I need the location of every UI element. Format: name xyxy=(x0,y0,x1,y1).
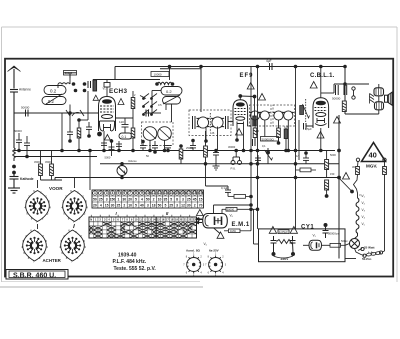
wire CY1 in/out xyxy=(303,244,330,246)
capacitor 4uF on bus xyxy=(266,59,272,70)
grid bias bus y150 xyxy=(14,150,108,152)
svg-text:25: 25 xyxy=(99,197,103,201)
junction dots EF9 top xyxy=(253,95,257,99)
wire screen feed verticals xyxy=(251,67,258,151)
svg-text:8: 8 xyxy=(176,197,178,201)
svg-text:VOOR: VOOR xyxy=(49,186,63,191)
junction dot left mid2 xyxy=(68,139,72,143)
svg-text:3: 3 xyxy=(182,197,184,201)
wire antenna down to kathode xyxy=(13,113,15,148)
resistor EM1 bottom boxed 1M xyxy=(224,229,251,233)
svg-text:35: 35 xyxy=(164,197,168,201)
wire switch stems xyxy=(38,178,75,230)
svg-text:2: 2 xyxy=(194,203,196,207)
junction dots detector row xyxy=(249,149,253,153)
svg-text:15: 15 xyxy=(175,191,179,195)
wire plug cluster xyxy=(355,249,365,256)
junction dot m1 xyxy=(131,149,135,153)
junction dots x251 xyxy=(249,162,253,166)
svg-text:10: 10 xyxy=(158,197,162,201)
variable capacitor osc left xyxy=(143,127,157,141)
chain links plug xyxy=(366,251,381,256)
junction dot m2 xyxy=(141,140,145,144)
svg-text:4500: 4500 xyxy=(45,160,51,164)
svg-text:V₁: V₁ xyxy=(362,194,365,198)
capacitor to ground xyxy=(10,174,19,188)
junction dot pu xyxy=(214,149,218,153)
wire mid rails right xyxy=(296,67,300,161)
grid cap wire ECH3 xyxy=(104,80,110,97)
svg-text:150: 150 xyxy=(330,172,335,176)
svg-text:1: 1 xyxy=(117,197,119,201)
svg-text:0.1: 0.1 xyxy=(122,135,127,139)
junction dot CY1 top xyxy=(324,223,328,227)
capacitor output 2 xyxy=(344,85,347,95)
triangle right of EF9 xyxy=(259,94,266,101)
coil hf choke xyxy=(157,82,172,84)
output transformer upper winding xyxy=(374,88,384,96)
wire psu arc xyxy=(274,256,294,258)
wire af coupling xyxy=(206,186,229,190)
coil small upper left xyxy=(58,78,70,88)
svg-text:0.2: 0.2 xyxy=(166,89,172,94)
power supply enclosure box xyxy=(259,229,346,262)
junction dot m5 xyxy=(179,144,183,148)
svg-text:4: 4 xyxy=(112,191,114,195)
svg-text:ACHTER: ACHTER xyxy=(43,258,62,263)
triangle below EM1 xyxy=(217,232,224,238)
wire avc to table xyxy=(89,151,91,191)
resistor tone vertical xyxy=(342,101,346,112)
junction dots varcap xyxy=(148,149,152,153)
capacitor cluster mid 6 xyxy=(190,140,196,151)
wire vertical x201 to IFT1 xyxy=(200,67,202,113)
svg-text:5000: 5000 xyxy=(105,156,111,160)
svg-text:3: 3 xyxy=(106,191,108,195)
capacitor cluster mid 4 xyxy=(140,141,146,151)
capacitor pair input xyxy=(88,81,94,88)
svg-text:5: 5 xyxy=(135,197,137,201)
triangle EM1 topleft xyxy=(196,210,203,216)
oscillator coil upper xyxy=(161,87,182,96)
terminal circle b xyxy=(363,254,366,257)
svg-text:0.5: 0.5 xyxy=(158,103,162,107)
socket diagram right xyxy=(208,256,222,274)
triangle 40 MGV xyxy=(362,143,386,162)
svg-text:1MΩ: 1MΩ xyxy=(230,229,236,233)
svg-text:Aansl. 8Ω: Aansl. 8Ω xyxy=(186,249,201,253)
svg-text:4500: 4500 xyxy=(34,160,40,164)
arrows into EM1 xyxy=(196,218,202,225)
detector small parts cluster xyxy=(255,155,261,164)
svg-text:30000cm: 30000cm xyxy=(328,232,340,236)
lamp chain right terminal xyxy=(383,158,386,161)
svg-text:50-Per.: 50-Per. xyxy=(362,257,372,261)
junction dots input filter xyxy=(72,82,76,86)
IFT1 core dashed xyxy=(209,113,211,132)
svg-text:11: 11 xyxy=(152,191,156,195)
junction dot CBL1 lead xyxy=(319,149,323,153)
potentiometer det xyxy=(265,148,273,164)
resistor chain left xyxy=(354,167,360,199)
capacitor pu xyxy=(213,151,219,161)
svg-text:20: 20 xyxy=(93,203,97,207)
svg-text:500000Ω: 500000Ω xyxy=(262,137,275,141)
IFT1 primary trim capacitor xyxy=(193,116,196,129)
band switch contact dots xyxy=(142,97,153,116)
capacitor det left xyxy=(253,139,256,146)
wire chain tap xyxy=(339,178,352,192)
mains switch circle xyxy=(350,236,360,249)
comb decoupling cluster 3 xyxy=(116,141,122,151)
svg-text:18: 18 xyxy=(193,191,197,195)
wire EM1 bottom xyxy=(214,228,221,234)
wire CBL1 grid top xyxy=(320,67,322,94)
svg-text:30: 30 xyxy=(111,203,115,207)
svg-text:25: 25 xyxy=(187,197,191,201)
resistor right rail 2 xyxy=(325,180,329,196)
resistor psu boxed xyxy=(278,230,289,234)
svg-text:10000: 10000 xyxy=(154,72,162,76)
svg-text:30: 30 xyxy=(187,203,191,207)
svg-text:4: 4 xyxy=(100,203,102,207)
wire x257 vertical lower xyxy=(257,105,259,229)
tube EM1 magic eye xyxy=(203,214,228,228)
wire EF9 cathode leads xyxy=(237,126,244,151)
svg-text:30: 30 xyxy=(122,197,126,201)
svg-text:Antenne: Antenne xyxy=(19,88,31,92)
svg-text:9: 9 xyxy=(141,191,143,195)
svg-text:3: 3 xyxy=(176,203,178,207)
svg-text:1ℎ: 1ℎ xyxy=(296,154,299,158)
resistor IFT2 lead vertical xyxy=(253,128,257,139)
capacitor psu 2 xyxy=(290,236,296,253)
padder trimmer below osc box xyxy=(152,141,158,152)
resistor R osc grid vertical xyxy=(131,91,135,115)
output transformer lower winding xyxy=(375,102,384,110)
triangle psu 2 xyxy=(290,227,297,234)
svg-text:3: 3 xyxy=(106,197,108,201)
svg-text:25: 25 xyxy=(117,203,121,207)
junction dots IFT2 leads xyxy=(287,149,291,153)
junction dot left low2 xyxy=(25,155,29,159)
band switch contact row 1 xyxy=(140,94,157,115)
coil choke left xyxy=(13,148,16,161)
capacitor CY1 xyxy=(323,227,329,238)
schematic frame xyxy=(5,59,393,277)
wire x295 vertical lower xyxy=(295,151,297,229)
svg-text:2: 2 xyxy=(153,197,155,201)
wire varcap leads to bus xyxy=(150,105,172,151)
wire CBL1 plate to transformer xyxy=(321,84,369,93)
junction dot c1 xyxy=(102,149,106,153)
svg-text:300: 300 xyxy=(247,124,252,128)
svg-text:4µF: 4µF xyxy=(266,59,272,63)
ground symbol pu xyxy=(213,160,220,170)
svg-text:500Ω: 500Ω xyxy=(341,239,347,243)
svg-text:0,1µF: 0,1µF xyxy=(221,186,228,190)
capacitor 4500 pair xyxy=(86,122,92,136)
svg-text:20: 20 xyxy=(128,197,132,201)
IFT2a coil 1 xyxy=(249,111,260,120)
wire antenna tap right xyxy=(14,112,62,114)
resistor volume vertical xyxy=(204,131,208,186)
rotary switch S3 achter-left xyxy=(21,229,48,264)
tiny value labels sprinkle xyxy=(34,93,362,243)
pickup terminal circles xyxy=(231,151,242,165)
lamp chain left wire xyxy=(357,162,360,167)
junction dot m3 xyxy=(153,150,157,154)
junction dot m4 xyxy=(166,149,170,153)
svg-text:Kathode: Kathode xyxy=(20,177,34,181)
svg-text:45: 45 xyxy=(193,197,197,201)
resistor 30000 boxed label xyxy=(64,71,77,76)
capacitor AF xyxy=(304,123,314,130)
oscillator tuning dashed box xyxy=(142,122,174,146)
ballast coil loops xyxy=(356,198,359,236)
IFT1 secondary coil xyxy=(211,117,224,128)
svg-text:14: 14 xyxy=(169,191,173,195)
svg-text:12: 12 xyxy=(158,191,162,195)
junction dot c3 xyxy=(117,149,121,153)
input bandfilter coil 0.2 upper xyxy=(44,86,66,95)
switch contact marks on grid line xyxy=(66,110,84,116)
tube EF9 xyxy=(233,100,248,126)
junction dot psu 1 xyxy=(272,252,276,256)
junction dots left mid3 xyxy=(77,118,81,122)
svg-text:50000: 50000 xyxy=(14,129,22,133)
junction dots x295 xyxy=(294,162,298,166)
resistor vertical 2 xyxy=(50,151,54,181)
triangle chain xyxy=(343,173,350,180)
resistor af boxed xyxy=(228,195,251,199)
lamp chain left terminal xyxy=(356,158,359,161)
junction dots left mid xyxy=(60,149,64,153)
resistor 4500 vertical xyxy=(39,151,43,181)
capacitor psu 1 xyxy=(271,236,277,253)
triangle below EF9 label xyxy=(247,83,254,90)
lamp tap labels V1-V5 xyxy=(362,194,366,226)
wire EM1 grid from bus xyxy=(214,205,252,214)
transformer winding hatch upper xyxy=(376,89,381,96)
junction dot osc feed xyxy=(168,65,172,69)
wire psu bottom exit xyxy=(345,244,356,259)
capacitor af 01uF xyxy=(221,186,231,197)
terminal circle c xyxy=(379,251,382,254)
transformer core hatch xyxy=(370,94,375,104)
svg-text:6a-25V: 6a-25V xyxy=(209,249,219,253)
svg-text:50000: 50000 xyxy=(227,208,235,212)
junction dot right rail xyxy=(325,194,329,198)
wire ground bus link xyxy=(41,178,56,181)
resistor 500000 ohm boxed xyxy=(261,137,279,142)
wire screen bus xyxy=(93,79,160,81)
junction dot m6 xyxy=(191,139,195,143)
junction dot psu 2 xyxy=(291,252,295,256)
svg-text:4: 4 xyxy=(141,197,143,201)
svg-text:17: 17 xyxy=(187,191,191,195)
wire EF9 grid to IFT1 xyxy=(228,121,233,123)
triangle psu 1 xyxy=(269,227,276,234)
svg-text:2: 2 xyxy=(100,191,102,195)
IFT2a coil 2 xyxy=(259,111,270,120)
wire transformer connections xyxy=(345,84,379,114)
wire resistor bottoms xyxy=(41,179,63,181)
resistor IFT2b lead vertical xyxy=(277,128,281,143)
terminal circles tone xyxy=(352,87,355,99)
bus y156 xyxy=(14,156,97,158)
terminal circle a xyxy=(361,247,364,250)
capacitor cluster mid 5 xyxy=(165,146,171,151)
tube CY1 rectifier xyxy=(309,240,322,250)
triangle output xyxy=(334,117,341,124)
svg-text:50000: 50000 xyxy=(332,97,341,101)
triangle below EF9 xyxy=(236,129,243,136)
padder capacitor osc xyxy=(146,110,149,117)
svg-text:15: 15 xyxy=(199,197,203,201)
resistor AF coupling 1 xyxy=(300,106,304,115)
comb decoupling cluster 1 xyxy=(101,131,107,151)
resistor EM1 top boxed 50000 xyxy=(222,208,258,212)
svg-text:50000: 50000 xyxy=(21,106,30,110)
junction dots volume xyxy=(205,150,207,152)
wire x251 vertical lower xyxy=(250,151,252,231)
svg-text:8: 8 xyxy=(135,191,137,195)
svg-text:P.L.F. 484 kHz.: P.L.F. 484 kHz. xyxy=(113,259,147,265)
socket right pin numbers xyxy=(205,253,227,278)
IFT2b coil 2 xyxy=(283,111,294,120)
svg-text:126: 126 xyxy=(284,125,289,129)
resistor psu zigzag xyxy=(277,240,293,244)
cathode resistor CBL1 xyxy=(325,151,329,178)
resistor vertical input xyxy=(93,80,97,91)
svg-text:50: 50 xyxy=(158,203,162,207)
capacitor 110 xyxy=(119,120,129,133)
junction dot 4500 xyxy=(87,134,91,138)
junction dot EF9 lead xyxy=(235,138,239,142)
IF transformer T2 dashed box B xyxy=(273,105,295,126)
resistor chain right xyxy=(383,162,387,252)
junction dot left low xyxy=(17,149,21,153)
junction dot pu2 xyxy=(234,149,238,153)
tube CBL1 xyxy=(313,98,329,128)
socket diagram left xyxy=(187,256,201,274)
triangle near ECH3 right xyxy=(118,99,124,105)
tube ECH3 xyxy=(99,97,116,132)
svg-text:CY1: CY1 xyxy=(301,225,314,231)
junction dots choke xyxy=(155,82,159,86)
wire EM1 down to power xyxy=(254,209,259,244)
svg-text:5: 5 xyxy=(135,203,137,207)
svg-text:Volume: Volume xyxy=(128,159,137,163)
svg-text:P.U.: P.U. xyxy=(231,167,237,171)
svg-text:Teste. 555 52. p.V.: Teste. 555 52. p.V. xyxy=(114,266,157,272)
svg-text:19: 19 xyxy=(199,191,203,195)
svg-text:3: 3 xyxy=(147,203,149,207)
antenna xyxy=(8,66,21,89)
svg-text:MGV.: MGV. xyxy=(366,164,377,169)
junction dot ECH3 cathode xyxy=(97,132,102,137)
svg-text:V₁: V₁ xyxy=(359,193,362,197)
triangle above CBL1 xyxy=(310,82,317,89)
svg-text:S.B.R. 460 U.: S.B.R. 460 U. xyxy=(13,273,56,280)
resistor psu out boxed xyxy=(330,243,345,247)
wire bus y163 xyxy=(100,163,339,165)
svg-text:25000: 25000 xyxy=(186,146,194,150)
rotary switch S2 voor-right xyxy=(61,189,88,224)
junction dot x345 xyxy=(343,82,347,86)
svg-text:30000: 30000 xyxy=(228,145,236,149)
IFT2b coil 1 xyxy=(273,111,284,120)
svg-text:40: 40 xyxy=(140,203,144,207)
resistor 10000 boxed label top xyxy=(151,72,169,77)
parts value table T1 xyxy=(92,190,204,208)
svg-text:2: 2 xyxy=(123,203,125,207)
svg-text:ECH3: ECH3 xyxy=(109,88,127,95)
wire CBL1 plate up xyxy=(320,93,322,98)
ground xyxy=(8,188,20,193)
svg-text:5: 5 xyxy=(117,191,119,195)
triangle near ECH3 left xyxy=(93,95,98,100)
IF transformer T1 dashed box xyxy=(189,110,231,136)
resistor vertical mid 2 xyxy=(179,146,183,164)
wire EC grid row xyxy=(116,118,134,124)
resistor vertical mid 1 xyxy=(131,115,135,151)
svg-text:5: 5 xyxy=(164,203,166,207)
wire coil left down xyxy=(62,105,70,151)
triangle det xyxy=(317,132,324,139)
wire terminal c up xyxy=(383,251,385,252)
svg-text:5000: 5000 xyxy=(330,153,336,157)
resistor left mid vertical xyxy=(77,120,81,151)
comb decoupling cluster 2 xyxy=(109,139,115,156)
node dots left column xyxy=(12,165,16,169)
svg-text:70: 70 xyxy=(199,203,203,207)
svg-text:16: 16 xyxy=(181,191,185,195)
svg-text:10: 10 xyxy=(146,191,150,195)
wire osc left leads xyxy=(145,91,161,114)
svg-text:10: 10 xyxy=(128,203,132,207)
capacitor 50000 on antenna line xyxy=(26,110,29,117)
capacitor left low 1 xyxy=(14,129,22,151)
svg-text:12: 12 xyxy=(181,203,185,207)
junction dots volume pot xyxy=(120,162,124,166)
junction dots x257 xyxy=(256,149,260,153)
svg-text:150: 150 xyxy=(110,197,116,201)
svg-text:15: 15 xyxy=(105,203,109,207)
band switch table T2 xyxy=(89,211,203,238)
svg-text:13: 13 xyxy=(164,191,168,195)
capacitor antenna coupling xyxy=(10,90,18,114)
svg-text:50: 50 xyxy=(146,197,150,201)
wire left coil feed xyxy=(79,80,93,121)
svg-text:25 Watt: 25 Watt xyxy=(364,246,375,250)
S.B.R. label box xyxy=(6,270,68,280)
capacitor output 1 xyxy=(332,85,341,101)
transformer winding hatch lower xyxy=(377,103,382,110)
variable capacitor osc right xyxy=(158,127,172,141)
capacitor right rail xyxy=(303,153,309,164)
scan outer border xyxy=(2,27,398,282)
resistor right rail boxed xyxy=(296,168,317,172)
svg-text:5: 5 xyxy=(170,197,172,201)
wire EF9 plate to IFT2 xyxy=(240,95,254,98)
resistor screen vertical dark xyxy=(253,116,257,126)
speaker xyxy=(385,92,393,105)
potentiometer volume circle xyxy=(117,164,127,178)
svg-text:0.2: 0.2 xyxy=(50,89,57,94)
svg-text:7: 7 xyxy=(129,191,131,195)
